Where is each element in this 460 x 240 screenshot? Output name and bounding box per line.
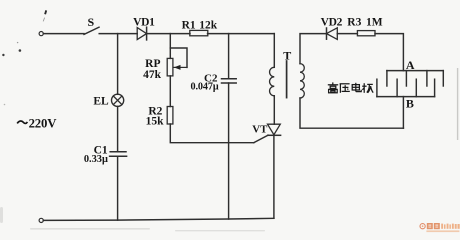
wire primary to VT anode	[273, 96, 275, 124]
resistor R2	[167, 107, 173, 125]
switch S blade	[84, 27, 99, 34]
terminal bottom-left	[39, 218, 43, 222]
wire RP branch vertical	[169, 34, 171, 59]
svg-text:T: T	[283, 49, 291, 63]
wire electrode B lead	[402, 97, 404, 129]
scan streak right edge	[457, 68, 459, 140]
wire EL to C1	[117, 106, 119, 151]
wire VD1 to R1	[147, 33, 190, 35]
svg-text:EL: EL	[93, 96, 109, 108]
svg-text:B: B	[406, 96, 414, 110]
svg-text:47k: 47k	[143, 69, 162, 81]
capacitor C1	[110, 152, 127, 157]
diode VD2	[327, 28, 338, 40]
wire R1 to primary corner	[208, 33, 275, 35]
wire VT cathode to bottom	[273, 135, 275, 218]
svg-text:VT: VT	[252, 124, 268, 136]
wire secondary bottom	[300, 98, 403, 128]
capacitor C2	[222, 79, 237, 83]
lamp EL	[112, 94, 124, 106]
scan speck top-left	[43, 10, 46, 21]
transformer T primary winding	[270, 67, 275, 96]
svg-text:220V: 220V	[29, 116, 58, 130]
char 极	[362, 83, 373, 93]
transformer core	[286, 61, 288, 98]
transformer T secondary winding	[300, 64, 304, 98]
electrode B comb	[377, 79, 435, 96]
resistor R1	[190, 30, 208, 35]
wire C1 to bottom	[117, 156, 119, 220]
svg-text:1M: 1M	[366, 16, 383, 28]
wire terminal to switch	[43, 33, 84, 35]
wire R2 to gate wire	[170, 124, 254, 143]
wire gate diagonal to VT	[254, 135, 268, 143]
wire switch to VD1	[99, 33, 137, 35]
label ~220V	[17, 116, 57, 130]
wire secondary lead top	[300, 34, 327, 64]
svg-text:12k: 12k	[199, 19, 218, 31]
wire RP to R2	[169, 76, 171, 107]
wire primary lead top	[273, 34, 275, 68]
wire C2 branch lower	[228, 83, 230, 219]
svg-text:15k: 15k	[146, 116, 165, 128]
svg-text:VD1: VD1	[133, 17, 155, 29]
diode VD1	[137, 27, 146, 40]
svg-text:0.047μ: 0.047μ	[190, 82, 218, 93]
wire R3 to electrode A lead	[375, 34, 403, 71]
potentiometer RP	[167, 58, 187, 76]
wire RP wiper to top	[170, 48, 187, 67]
svg-text:A: A	[406, 58, 415, 72]
wire VD2 to R3	[337, 33, 357, 35]
char 电	[352, 83, 361, 92]
watermark logo circle	[420, 224, 425, 229]
svg-text:S: S	[88, 15, 95, 29]
char 高	[328, 82, 338, 92]
electrode A comb	[387, 71, 443, 86]
scan speck dots	[2, 42, 21, 105]
svg-text:R3: R3	[347, 16, 361, 28]
thyristor VT	[268, 124, 281, 135]
terminal top-left	[39, 31, 43, 35]
watermark text blocks	[426, 223, 459, 232]
svg-text:0.33μ: 0.33μ	[84, 154, 108, 165]
wire EL branch top	[117, 34, 119, 95]
char 压	[340, 84, 350, 93]
svg-text:R1: R1	[182, 19, 196, 31]
resistor R3	[357, 31, 375, 36]
wire bottom rail	[43, 218, 274, 220]
wire C2 branch upper	[228, 34, 230, 79]
svg-text:VD2: VD2	[321, 16, 343, 28]
label 高压电极 (drawn strokes)	[328, 82, 373, 92]
scan smudges bottom	[0, 207, 265, 231]
